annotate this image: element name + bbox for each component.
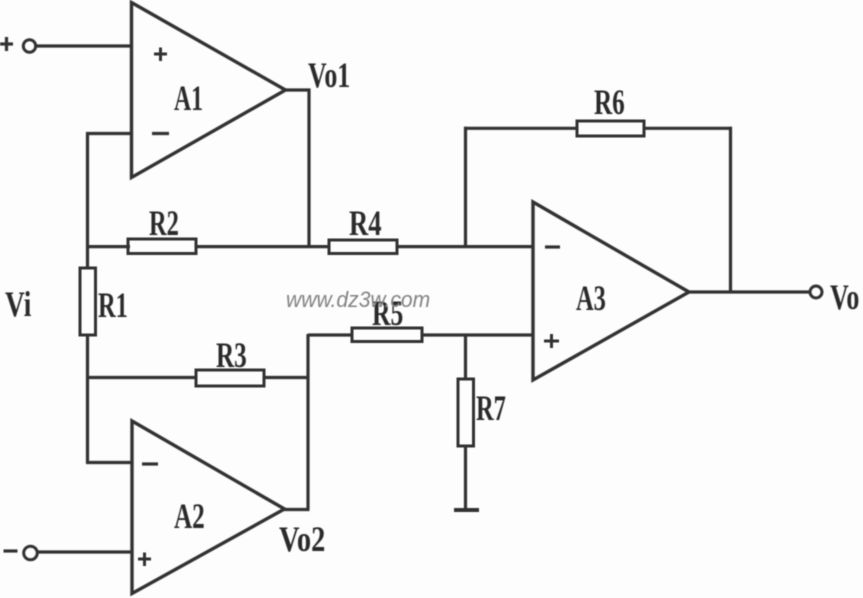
wire: R3 row from left vertical to Vo2 vertical [86,376,197,379]
wire: R5 to A3 plus input [422,333,533,336]
svg-text:R4: R4 [349,203,382,243]
wire: R2 to R4 [195,245,330,248]
svg-text:www.dz3w.com: www.dz3w.com [286,287,430,313]
A2 minus sign [142,462,158,465]
resistor R4 [329,240,397,254]
wire: A1 output stub [285,90,309,248]
svg-text:Vi: Vi [5,284,31,323]
input terminal minus sign [4,549,18,552]
svg-text:R1: R1 [98,285,128,325]
wire: R5 row from Vo2 vertical to A3 plus input [308,333,353,336]
wire: feedback left vertical (A3 minus to R6) [464,127,467,248]
wire: bottom terminal to A2 + input [38,550,133,553]
resistor R2 [128,239,196,254]
wire: top terminal to A1 + input [36,44,132,47]
wire: R4 to A3 minus input [396,245,534,248]
A1 minus sign [152,132,169,135]
A3 plus sign [544,334,559,348]
svg-text:Vo2: Vo2 [279,520,325,560]
svg-text:R7: R7 [476,388,506,428]
wire: R6 row right segment [643,127,732,130]
resistor R7 (vertical) [458,379,474,446]
ground [454,508,479,512]
resistor R5 [352,328,422,342]
op-amp A1 [132,3,286,178]
wire: R7 junction vertical [464,335,467,380]
wire: left vertical R1 bottom to A2 minus [86,335,89,464]
op-amp A2 [132,421,285,594]
resistor R6 [577,121,644,136]
svg-text:A3: A3 [576,278,606,318]
svg-text:A2: A2 [174,496,205,537]
output terminal circle [810,286,822,298]
svg-text:Vo1: Vo1 [308,55,350,95]
input terminal plus sign [0,37,13,51]
wire: A2 output stub to Vo2 vertical [284,508,310,511]
svg-text:R3: R3 [216,335,247,376]
wire: A2 minus input horizontal [86,461,132,464]
svg-text:R6: R6 [594,82,625,123]
A2 plus sign [138,553,151,567]
resistor R3 [196,370,264,386]
svg-text:Vo: Vo [830,277,859,317]
wire: A3 output to terminal [688,290,810,293]
input terminal circle (top, +) [23,40,35,52]
wire: feedback right vertical down to output [729,127,732,293]
A3 minus sign [545,245,560,248]
wire: R3 to Vo2 vertical [264,376,310,379]
A1 plus sign [154,48,167,62]
wire: left vertical from A1 minus down to R1 top [86,132,89,268]
wire: R6 row left segment [464,127,578,130]
svg-text:A1: A1 [174,78,203,118]
wire: Vo2 vertical up to R5 row [306,334,309,509]
wire: A1 minus input horizontal [86,132,132,135]
input terminal circle (bottom, -) [24,546,38,560]
svg-text:R2: R2 [149,203,179,243]
resistor R1 (vertical) [80,268,96,335]
op-amp A3 [533,202,689,380]
wire: R7 bottom to ground [464,446,467,510]
wire: main row y=248 from left vertical to A3 minus input [86,245,130,248]
